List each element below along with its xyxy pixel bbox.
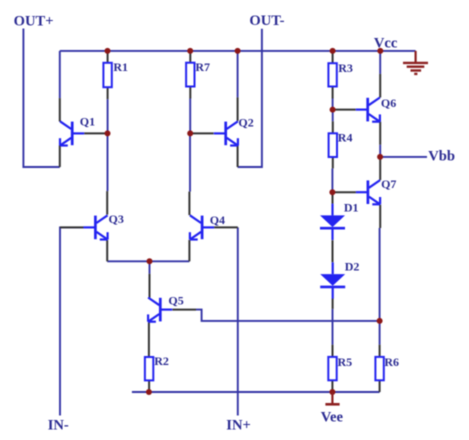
wire R4 bottom to Q7 base node xyxy=(331,168,333,192)
svg-text:R6: R6 xyxy=(384,355,399,369)
pin Q2 emitter xyxy=(237,146,239,168)
junction R4/D1/Q7 base xyxy=(329,189,335,195)
pin Q1 base xyxy=(84,132,107,134)
wire Vbb stub xyxy=(380,156,427,158)
wire OUT+ net xyxy=(23,29,59,168)
wire Q4 emitter corner to node D xyxy=(150,260,190,262)
diode D1 xyxy=(320,201,359,240)
resistor R4 xyxy=(329,131,353,158)
pin R6 top xyxy=(379,345,381,357)
svg-text:R7: R7 xyxy=(195,60,210,74)
pin Q1 collector xyxy=(59,98,61,121)
pin R6 bottom xyxy=(379,380,381,392)
transistor Q4 xyxy=(190,213,225,240)
junction node C Q7 emitter/R6 xyxy=(377,318,383,324)
wire D2 cathode to R5 top xyxy=(332,309,334,345)
pin Q5 collector xyxy=(149,274,151,298)
svg-text:D2: D2 xyxy=(345,260,360,274)
resistor R5 xyxy=(328,355,352,380)
pin D1 anode xyxy=(332,192,334,203)
pin Q4 emitter xyxy=(188,240,190,261)
resistor R6 xyxy=(375,355,399,380)
pin R4 top xyxy=(332,121,334,133)
junction node D emitters Q3 Q4 xyxy=(147,258,153,264)
wire node D to Q5 collector xyxy=(149,261,151,274)
wire Vcc rail to Q2 collector xyxy=(237,51,239,98)
svg-text:R2: R2 xyxy=(154,354,169,368)
pin D1 cathode to D2 anode xyxy=(332,240,334,262)
svg-text:IN-: IN- xyxy=(48,418,69,434)
svg-text:Q1: Q1 xyxy=(80,114,95,128)
wire Q3 emitter corner to node D xyxy=(107,260,149,262)
pin R7 top xyxy=(189,51,191,63)
wire Vcc rail to Q1 collector xyxy=(59,51,61,98)
svg-text:R1: R1 xyxy=(113,60,128,74)
wire OUT- net xyxy=(238,29,262,167)
resistor R3 xyxy=(328,61,352,87)
pin Q5 emitter xyxy=(148,322,150,357)
wire R1 bottom to node A xyxy=(107,99,109,133)
pin Q3 emitter xyxy=(106,240,108,261)
svg-text:Q5: Q5 xyxy=(168,294,183,308)
svg-text:R3: R3 xyxy=(338,61,353,75)
wire R3 bottom to Q6 base node xyxy=(332,99,334,110)
wire IN+ net xyxy=(237,227,239,415)
wire node B to Q4 collector xyxy=(189,133,191,191)
transistor Q2 xyxy=(214,115,254,145)
pin Q7 emitter xyxy=(379,205,381,228)
svg-text:Vee: Vee xyxy=(321,409,344,425)
svg-text:Q3: Q3 xyxy=(109,212,124,226)
svg-text:Q4: Q4 xyxy=(210,213,225,227)
pin R2 bottom xyxy=(148,380,150,392)
wire Q7 emitter to node C xyxy=(379,228,381,321)
pin Q1 emitter xyxy=(59,146,61,168)
resistor R7 xyxy=(186,60,210,87)
svg-text:Vcc: Vcc xyxy=(374,36,398,52)
svg-text:D1: D1 xyxy=(344,201,359,215)
resistor R1 xyxy=(103,60,128,87)
transistor Q3 xyxy=(83,212,123,240)
pin D2 cathode xyxy=(332,298,334,309)
resistor R2 xyxy=(145,354,169,380)
junction R1 top on Vcc rail xyxy=(105,48,111,54)
pin Q2 collector xyxy=(237,97,239,121)
svg-text:Q2: Q2 xyxy=(238,115,253,129)
wire Q6 base node to R4 top xyxy=(332,110,334,122)
junction Vcc node xyxy=(377,48,383,54)
pin Q7 base xyxy=(332,191,356,193)
ground xyxy=(403,51,428,74)
pin R5 top xyxy=(332,345,334,357)
wire R7 bottom to node B xyxy=(189,99,191,134)
transistor Q6 xyxy=(356,96,397,122)
pin R3 bottom xyxy=(332,87,334,99)
svg-text:IN+: IN+ xyxy=(226,418,251,434)
pin Q4 base xyxy=(214,226,238,228)
svg-text:Q6: Q6 xyxy=(381,96,396,110)
wire Q5 base jog to node C xyxy=(196,310,380,321)
transistor Q5 xyxy=(148,294,184,322)
pin R5 bottom xyxy=(331,380,333,392)
junction R3 top on Vcc rail xyxy=(330,48,336,54)
svg-text:R4: R4 xyxy=(338,131,353,145)
svg-text:Vbb: Vbb xyxy=(428,149,455,165)
pin Q6 collector xyxy=(379,74,381,98)
svg-text:OUT+: OUT+ xyxy=(14,14,54,30)
power Vee bar xyxy=(325,392,339,404)
pin R1 bottom xyxy=(107,87,109,99)
junction Q2 collector on Vcc rail xyxy=(235,48,241,54)
pin Q3 base xyxy=(60,226,83,228)
wire Vcc rail to Q6 collector xyxy=(379,51,381,74)
transistor Q1 xyxy=(60,114,95,145)
svg-text:OUT-: OUT- xyxy=(249,13,284,29)
pin Q3 collector xyxy=(106,191,108,215)
wire IN- net xyxy=(60,227,95,415)
wire Q6 emitter to Vbb node xyxy=(379,145,381,157)
junction node B R7/Q2 base/Q4 collector xyxy=(187,130,193,136)
pin R3 top xyxy=(332,51,334,63)
wire node A to Q3 collector xyxy=(107,133,109,191)
pin Q6 base xyxy=(333,109,356,111)
junction R7 top on Vcc rail xyxy=(187,48,193,54)
pin Q6 emitter xyxy=(379,122,381,145)
diode D2 xyxy=(320,260,359,299)
junction node A R1/Q1 base/Q3 collector xyxy=(105,130,111,136)
wire Vcc rail xyxy=(60,50,416,52)
junction R2 bottom on Vee rail xyxy=(146,389,152,395)
junction R5 bottom Vee node xyxy=(329,389,335,395)
svg-text:Q7: Q7 xyxy=(381,177,396,191)
pin Q5 base xyxy=(173,309,197,311)
pin R4 bottom xyxy=(332,157,334,168)
pin R7 bottom xyxy=(189,87,191,99)
wire Vee rail xyxy=(132,391,380,393)
transistor Q7 xyxy=(356,177,397,204)
pin Q2 base xyxy=(190,132,213,134)
pin R1 top xyxy=(107,51,109,63)
junction R3/R4/Q6 base xyxy=(330,107,336,113)
pin Q7 collector xyxy=(379,157,381,180)
junction Vbb node xyxy=(377,154,383,160)
wire node C to R6 top xyxy=(379,321,381,345)
pin Q4 collector xyxy=(188,192,190,216)
svg-text:R5: R5 xyxy=(338,355,353,369)
